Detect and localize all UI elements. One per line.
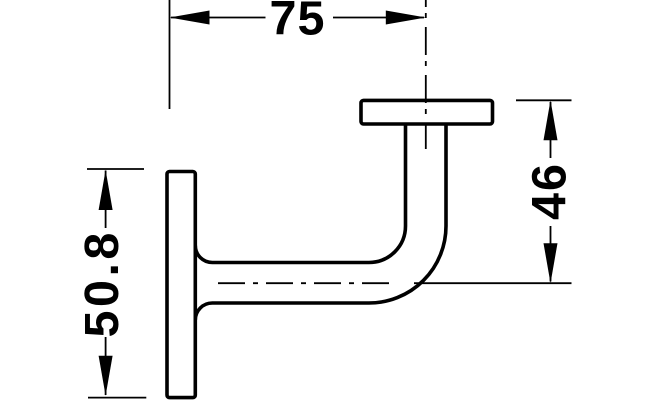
- 75 dimension line: [171, 17, 424, 19]
- 50.8 top extension line: [87, 168, 144, 170]
- 75 arrow right: [386, 11, 426, 25]
- vertical centerline: [425, 0, 427, 149]
- 75 left extension line: [169, 0, 171, 109]
- 46 arrow down: [544, 243, 558, 283]
- handrail top plate: [361, 100, 493, 124]
- svg-text:75: 75: [270, 0, 326, 46]
- svg-text:46: 46: [523, 162, 577, 220]
- wall plate: [167, 172, 195, 398]
- 75 arrow left: [170, 11, 210, 25]
- 50.8 arrow up: [99, 170, 113, 210]
- bracket arm upper outline: [195, 124, 405, 263]
- horizontal centerline: [218, 282, 390, 284]
- svg-text:50.8: 50.8: [75, 229, 129, 337]
- 46 top extension line: [516, 99, 572, 101]
- 46 arrow up: [544, 100, 558, 140]
- 46 bottom extension line: [414, 282, 572, 284]
- bracket arm lower outline: [195, 124, 446, 320]
- 46 dimension line: [550, 102, 552, 282]
- 50.8 bottom extension line: [88, 397, 146, 399]
- 50.8 arrow down: [99, 356, 113, 396]
- 50.8 dimension line: [105, 171, 107, 396]
